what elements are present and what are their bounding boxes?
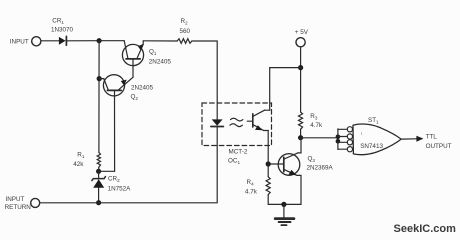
wire [143, 40, 177, 42]
transistor Q2 [99, 75, 133, 172]
wire phototransistor collector up [269, 68, 271, 111]
zener diode CR2 [92, 171, 106, 202]
output arrow [416, 136, 423, 142]
wire [99, 40, 124, 42]
gate input stubs [338, 129, 347, 149]
+5V terminal [296, 38, 305, 47]
svg-text:1N752A: 1N752A [108, 186, 132, 193]
INPUT RETURN terminal [31, 198, 40, 207]
wire [98, 167, 100, 171]
svg-text:¹: ¹ [361, 132, 363, 137]
node A junction [97, 38, 102, 43]
wire [66, 40, 99, 42]
svg-text:MCT-2: MCT-2 [229, 149, 248, 156]
gate input bus [337, 129, 339, 150]
resistor R3 [299, 112, 303, 129]
svg-text:INPUT: INPUT [6, 196, 25, 203]
wire [192, 41, 217, 119]
svg-text:OUTPUT: OUTPUT [426, 143, 452, 150]
svg-text:SN7413: SN7413 [360, 143, 383, 150]
svg-text:2N2369A: 2N2369A [307, 165, 334, 172]
wire phototransistor emitter down [267, 131, 269, 165]
optocoupler dashed box OC1 [202, 103, 272, 146]
wire to gate inputs [301, 137, 338, 139]
wire [300, 129, 302, 138]
svg-text:+ 5V: + 5V [295, 29, 309, 36]
wire +5V down [300, 47, 302, 112]
junction R3/Q3/gate node [298, 135, 303, 140]
phototransistor of OC1 [247, 110, 269, 130]
svg-text:1N3070: 1N3070 [51, 27, 74, 34]
svg-text:4.7k: 4.7k [245, 188, 258, 195]
svg-text:2N2405: 2N2405 [131, 85, 154, 92]
Schmitt NAND gate U1 SN7413 body [353, 124, 401, 155]
return rail wire [40, 127, 218, 202]
wire [268, 195, 301, 205]
svg-text:RETURN: RETURN [5, 204, 32, 211]
svg-text:42k: 42k [73, 161, 84, 168]
wire [267, 164, 269, 177]
gate input bubbles [347, 127, 352, 152]
INPUT terminal [32, 37, 41, 46]
svg-text:TTL: TTL [426, 133, 438, 140]
diode CR1 [59, 36, 67, 45]
LED of optocoupler [211, 119, 224, 126]
optical coupling symbol [230, 118, 243, 126]
output wire [401, 138, 417, 140]
junction on return rail [96, 200, 101, 205]
node junction Q2 collector tap [97, 76, 102, 81]
junction R4 top node [266, 161, 271, 166]
resistor R2 [177, 39, 192, 44]
junction +5V node [298, 65, 303, 70]
svg-text:560: 560 [180, 28, 191, 35]
wire [41, 40, 59, 42]
wire to optocoupler collector [270, 67, 301, 69]
svg-text:INPUT: INPUT [10, 39, 29, 46]
svg-text:2N2405: 2N2405 [149, 58, 172, 65]
ground [275, 204, 294, 225]
wire Q2 base link [99, 170, 115, 172]
resistor R1 [97, 152, 100, 167]
svg-text:4.7k: 4.7k [310, 122, 323, 129]
resistor R4 [266, 177, 270, 195]
transistor Q1 [122, 41, 143, 78]
junction ground node [281, 202, 286, 207]
node B junction [96, 169, 101, 174]
transistor Q3 [268, 138, 301, 205]
svg-text:SeekIC.com: SeekIC.com [394, 223, 457, 235]
junction gate input blob [336, 135, 341, 140]
left vertical wire [98, 41, 100, 153]
